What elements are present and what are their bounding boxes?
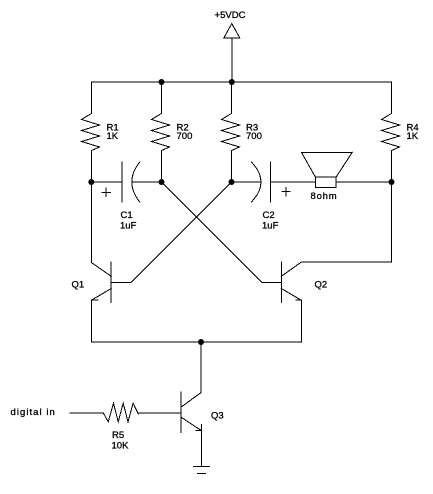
svg-text:Q2: Q2 [315,280,328,291]
node D dot (R4/speaker/Q2 collector) [389,179,395,185]
svg-text:digital in: digital in [11,407,56,418]
polarity mark + of C2 [282,188,290,196]
svg-text:C1: C1 [121,210,133,221]
svg-text:700: 700 [246,131,262,142]
wire node D to Q2 collector [301,182,391,262]
wire power symbol to top rail [231,38,233,82]
junction dot power feed at supply rail [229,79,235,85]
svg-text:C2: C2 [263,210,275,221]
node B dot (R2/C1/Q2 base) [159,179,165,185]
transistor Q3 [180,392,182,432]
wire node A to Q1 collector [90,182,92,263]
power symbol +5VDC triangle [224,24,240,39]
junction dot R2 top at supply rail [159,79,165,85]
svg-text:+5VDC: +5VDC [215,10,246,21]
wire node C to C2 left plate [232,181,261,183]
svg-text:1uF: 1uF [120,221,137,232]
node A dot (R1/C1/Q1 collector) [88,179,94,185]
resistor R3 [222,113,240,150]
wire R3 top lead [231,82,233,113]
svg-text:10K: 10K [112,441,130,452]
ground [194,466,210,468]
wire digital in to R5 [70,412,103,414]
wire R5 to Q3 base [138,412,181,414]
wire R2 top lead [161,82,163,113]
wire bottom rail to Q3 collector [200,342,202,393]
wire R4 top lead [391,82,393,113]
svg-text:Q1: Q1 [72,280,85,291]
wire top supply rail [91,81,391,83]
wire bottom emitter rail [91,341,301,343]
resistor R2 [152,113,170,150]
wire R1 top lead [90,82,92,113]
wire R1 bottom lead [90,151,92,183]
wire speaker to node D [336,181,391,183]
svg-text:1K: 1K [407,131,419,142]
wire node A to C1 left plate [91,181,122,183]
svg-text:R5: R5 [112,430,124,441]
wire C2 right plate to speaker [270,181,315,183]
transistor Q2 [280,262,282,303]
svg-text:Q3: Q3 [211,411,224,422]
wire R2 bottom lead [161,151,163,183]
capacitor C1 [121,162,123,202]
wire C1 right plate to node B [132,181,161,183]
wire R3 bottom lead [231,151,233,183]
wire R4 bottom lead [391,151,393,183]
wire Q3 emitter to ground [200,431,202,467]
svg-text:1uF: 1uF [262,221,279,232]
junction dot bottom rail to Q3 collector [198,339,204,345]
resistor R1 [82,113,100,150]
polarity mark + of C1 [102,188,110,196]
resistor R4 [382,113,400,150]
wire Q2 emitter down [300,300,302,342]
transistor Q1 [110,262,112,303]
wire cross-couple node C to Q1 base [131,182,232,283]
node C dot (R3/C2/Q1 base) [229,179,235,185]
capacitor C2 [251,162,261,202]
wire cross-couple node B to Q2 base [162,182,263,283]
svg-text:1K: 1K [107,131,119,142]
svg-text:700: 700 [177,131,193,142]
wire Q1 emitter down [90,300,92,342]
speaker LS1 [301,152,352,177]
svg-text:8ohm: 8ohm [311,191,338,202]
resistor R5 [103,403,138,422]
